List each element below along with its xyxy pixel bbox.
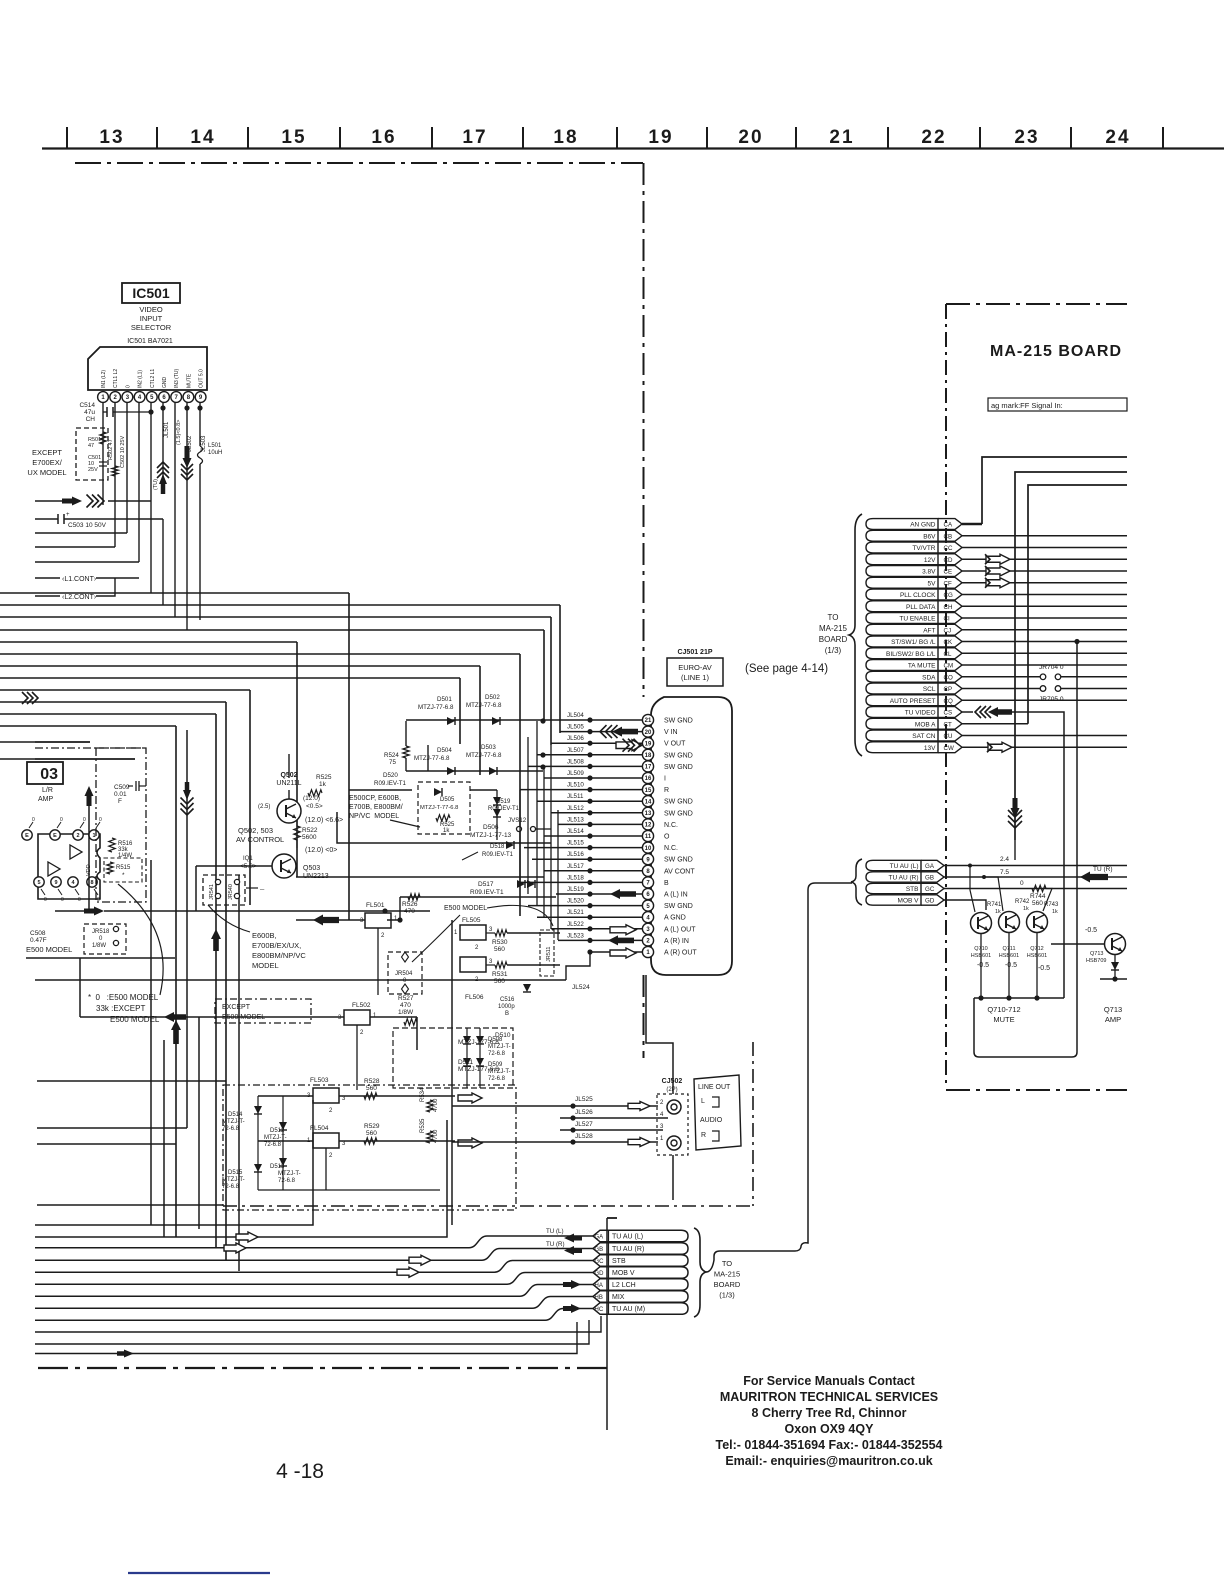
svg-text:560: 560	[366, 1130, 377, 1137]
svg-text:21: 21	[645, 718, 652, 724]
svg-text:CL: CL	[944, 651, 952, 658]
svg-text:A (L) OUT: A (L) OUT	[664, 926, 696, 933]
jumper JR504 dashed box	[388, 952, 422, 994]
connector pin CC TV/VTR	[866, 542, 938, 553]
connector pin GB TU AU (R)	[866, 872, 921, 882]
connector pin GA TU AU (L)	[593, 1230, 688, 1242]
svg-text:22: 22	[921, 127, 946, 148]
svg-text:SELECTOR: SELECTOR	[131, 323, 172, 332]
diode D519	[493, 797, 501, 805]
svg-text:A GND: A GND	[664, 915, 686, 922]
svg-text:─: ─	[259, 887, 265, 893]
resistor R744	[1032, 885, 1046, 891]
svg-text:ST/SW1/ BG /L: ST/SW1/ BG /L	[891, 639, 936, 646]
svg-text:1k: 1k	[1023, 906, 1029, 912]
arrow open 12V	[986, 554, 1010, 564]
svg-text:JR704 0: JR704 0	[1039, 664, 1064, 671]
svg-text:GB: GB	[595, 1247, 604, 1253]
svg-text:3: 3	[342, 1141, 346, 1147]
svg-text:R527: R527	[398, 995, 414, 1002]
page border dash bottom	[38, 1367, 612, 1369]
connector pin HA L2 LCH	[593, 1279, 688, 1291]
svg-text:AV CONTROL: AV CONTROL	[236, 835, 284, 844]
transistor Q711	[999, 912, 1020, 933]
wire lower-left horizontals	[37, 1080, 226, 1082]
svg-text:TU VIDEO: TU VIDEO	[905, 710, 936, 717]
svg-text:C502 10 25V: C502 10 25V	[120, 436, 126, 468]
svg-text:1: 1	[394, 916, 398, 922]
svg-text:2: 2	[329, 1153, 333, 1159]
svg-text:AUDIO: AUDIO	[700, 1117, 723, 1124]
svg-text:R524: R524	[384, 752, 399, 759]
svg-text:IN1 (L2): IN1 (L2)	[101, 370, 107, 388]
arrow open pair upper	[236, 1232, 258, 1242]
svg-text:0: 0	[125, 385, 131, 388]
svg-text:Email:- enquiries@mauritron.co: Email:- enquiries@mauritron.co.uk	[725, 1454, 932, 1468]
svg-text:E700B/EX/UX,: E700B/EX/UX,	[252, 941, 301, 950]
svg-text:3: 3	[660, 1124, 664, 1130]
svg-text:MA-215: MA-215	[819, 624, 848, 633]
svg-text:13: 13	[99, 127, 124, 148]
wire GA out	[944, 865, 1127, 867]
svg-text:D520: D520	[383, 772, 398, 779]
arrow up solid	[85, 786, 94, 806]
svg-text:V OUT: V OUT	[664, 741, 686, 748]
svg-text:D506: D506	[483, 824, 499, 831]
svg-text:L501: L501	[208, 443, 222, 449]
svg-text:SCL: SCL	[923, 686, 936, 693]
wire GC out	[944, 888, 1127, 890]
connector pin CH PLL DATA	[866, 601, 938, 612]
svg-text:GD: GD	[925, 898, 935, 905]
connector pin GC STB	[593, 1255, 688, 1267]
svg-text:Q710-712: Q710-712	[987, 1005, 1020, 1014]
svg-text:GD: GD	[595, 1271, 605, 1277]
connector pin GD MOB V	[593, 1267, 688, 1279]
wire q503 base	[196, 865, 272, 867]
svg-text:72-6.8: 72-6.8	[264, 1142, 282, 1148]
arrow chevrons on bus	[32, 692, 38, 704]
IC IC503 label	[27, 762, 63, 784]
svg-text:560: 560	[494, 978, 505, 985]
arrow up-chevron JL501	[157, 462, 169, 468]
svg-text:47u: 47u	[84, 409, 95, 416]
arrow A L OUT right	[610, 925, 636, 935]
IC503 pin stub labels	[29, 822, 33, 828]
svg-text:B6V: B6V	[923, 533, 936, 540]
svg-text:0.47F: 0.47F	[30, 937, 47, 944]
resistor R522	[294, 826, 300, 840]
jumper JR705	[1040, 686, 1046, 692]
arrow up thick	[211, 929, 221, 951]
svg-text:JL521: JL521	[567, 909, 584, 916]
svg-text:R741: R741	[987, 902, 1002, 908]
svg-text:*: *	[122, 872, 125, 879]
svg-text:MOB V: MOB V	[612, 1270, 635, 1277]
svg-text:15: 15	[281, 127, 306, 148]
svg-text:MTZJ-77-6.8: MTZJ-77-6.8	[466, 752, 502, 759]
svg-text:R09.IEV-T1: R09.IEV-T1	[482, 852, 514, 858]
jumper JR518 dashed box	[84, 924, 126, 954]
svg-text:75: 75	[389, 759, 396, 766]
svg-text:(2P): (2P)	[666, 1087, 677, 1093]
svg-text:3: 3	[489, 927, 493, 933]
svg-text:TU AU (M): TU AU (M)	[612, 1306, 645, 1313]
svg-text:-0.5: -0.5	[977, 962, 989, 969]
blue scan line	[128, 1572, 270, 1574]
svg-text:MTZJ-77-6.8: MTZJ-77-6.8	[414, 755, 450, 762]
svg-text:21: 21	[829, 127, 854, 148]
svg-text:CJ501 21P: CJ501 21P	[677, 649, 712, 656]
connector pin CK ST/SW1/ BG /L	[866, 636, 938, 647]
svg-text:OUT 5.0: OUT 5.0	[199, 369, 205, 388]
IC501 body	[88, 347, 207, 390]
wire bus A	[0, 592, 349, 594]
connector pin GB TU AU (R)	[593, 1243, 688, 1255]
page border dash right vertical	[643, 163, 645, 697]
svg-text:CD: CD	[944, 557, 953, 564]
wire mute bus	[974, 997, 1064, 999]
svg-text:JL528: JL528	[575, 1133, 593, 1140]
svg-text:JL525: JL525	[575, 1096, 593, 1103]
svg-text:R528: R528	[364, 1078, 380, 1085]
svg-text:JL515: JL515	[567, 840, 584, 847]
wire bus A vertical drops	[348, 593, 350, 920]
svg-text:INPUT: INPUT	[140, 314, 163, 323]
svg-text:2: 2	[360, 1030, 364, 1036]
IC IC501 label	[122, 283, 180, 303]
svg-text:D519: D519	[496, 799, 511, 805]
svg-text:1/8W: 1/8W	[92, 943, 106, 949]
svg-text:R535: R535	[420, 1118, 426, 1133]
svg-text:Q713: Q713	[1090, 951, 1103, 957]
svg-text:JL512: JL512	[567, 805, 584, 812]
svg-text:0: 0	[1020, 880, 1024, 887]
arrow left solid FL501	[296, 919, 365, 921]
svg-text:AMP: AMP	[1105, 1015, 1121, 1024]
wire long verticals	[150, 860, 152, 1225]
svg-text:BOARD: BOARD	[714, 1280, 741, 1289]
svg-text:-0.5: -0.5	[1038, 965, 1050, 972]
svg-text:IN2 (L1): IN2 (L1)	[138, 370, 144, 388]
resistor R526	[400, 896, 556, 898]
svg-text:IQ1: IQ1	[243, 856, 253, 862]
svg-text:MUTE: MUTE	[993, 1015, 1014, 1024]
svg-text:EURO-AV: EURO-AV	[678, 663, 712, 672]
arrow open 5V	[986, 578, 1010, 588]
svg-text:JR541: JR541	[209, 884, 215, 900]
wire bundle C lines	[35, 1236, 593, 1248]
svg-text:JL522: JL522	[567, 921, 584, 928]
wire cj502 feed	[646, 975, 673, 1094]
svg-text:(12.0): (12.0)	[303, 795, 320, 802]
arrow open 13V	[988, 742, 1012, 752]
connector pin CU SAT CN	[866, 730, 938, 741]
svg-text:AUTO PRESET: AUTO PRESET	[890, 698, 936, 705]
svg-text:GC: GC	[925, 886, 935, 893]
svg-text:17: 17	[462, 127, 487, 148]
svg-text:R09.IEV-T1: R09.IEV-T1	[488, 806, 520, 812]
svg-text:TO: TO	[828, 613, 839, 622]
IC501 pins 1-9	[98, 392, 109, 403]
svg-text:R534: R534	[420, 1087, 426, 1102]
svg-text:CTL2 L1: CTL2 L1	[150, 369, 156, 388]
svg-text:14: 14	[190, 127, 215, 148]
svg-text:E600B,: E600B,	[252, 931, 277, 940]
svg-text:47: 47	[88, 443, 94, 449]
svg-text:TU AU (R): TU AU (R)	[612, 1246, 644, 1253]
svg-text:1/8W: 1/8W	[398, 1009, 414, 1016]
svg-text:CU: CU	[944, 733, 953, 740]
svg-text:TU AU (R): TU AU (R)	[889, 875, 919, 882]
arrow open pair lower	[409, 1255, 431, 1265]
svg-text:‹L2.CONT›: ‹L2.CONT›	[62, 594, 97, 601]
svg-text:(TU): (TU)	[153, 479, 159, 490]
junction dots on pins 6 8 9	[160, 405, 165, 410]
svg-text:C509: C509	[114, 784, 130, 791]
svg-text:Tel:- 01844-351694 Fax:- 01844: Tel:- 01844-351694 Fax:- 01844-352554	[715, 1438, 942, 1452]
svg-text:L2 LCH: L2 LCH	[612, 1282, 636, 1289]
wire GB out	[944, 876, 1127, 878]
wire bus B	[0, 689, 250, 691]
svg-text:25V: 25V	[88, 467, 98, 473]
svg-text:(LINE 1): (LINE 1)	[681, 673, 709, 682]
svg-text:CH: CH	[86, 416, 96, 423]
arrow A L IN left	[610, 889, 636, 899]
svg-text:I: I	[664, 776, 666, 783]
svg-text:MIX: MIX	[612, 1294, 625, 1301]
svg-text:72-6.8: 72-6.8	[488, 1076, 506, 1082]
svg-text:CT: CT	[944, 721, 952, 728]
arrow to bus	[62, 497, 82, 506]
connector CJ501 EURO-AV label box	[667, 658, 723, 686]
dashed box diode cluster	[393, 1028, 513, 1088]
node L2.CONT	[35, 595, 60, 597]
svg-text:HA: HA	[595, 1283, 603, 1289]
svg-text:JL520: JL520	[567, 898, 584, 905]
brace C-stack	[849, 514, 862, 756]
wire fl502 out	[370, 1016, 417, 1018]
resistor R515 dashed box	[104, 858, 142, 882]
svg-text:A (R) OUT: A (R) OUT	[664, 950, 697, 957]
svg-text:JR705 0: JR705 0	[1039, 696, 1064, 703]
svg-text:FL501: FL501	[366, 902, 385, 909]
svg-text:JL505: JL505	[567, 724, 584, 731]
svg-text:D505: D505	[440, 797, 455, 803]
svg-text:E700EX/: E700EX/	[32, 458, 63, 467]
svg-text:JL506: JL506	[567, 735, 584, 742]
svg-text:LINE OUT: LINE OUT	[698, 1084, 731, 1091]
brace GA-HC	[694, 1228, 706, 1317]
svg-text:14: 14	[645, 799, 652, 805]
svg-text:STB: STB	[612, 1258, 626, 1265]
connector CJ501 body	[651, 697, 732, 975]
svg-text:E700B, E800BM/: E700B, E800BM/	[349, 804, 403, 811]
svg-text:SW GND: SW GND	[664, 718, 693, 725]
svg-text:SW GND: SW GND	[664, 764, 693, 771]
svg-text:FL506: FL506	[465, 994, 484, 1001]
wire IC501 pin drops	[102, 403, 104, 506]
dashed box audio filters	[223, 1085, 516, 1210]
arrow chevron down double	[183, 782, 191, 800]
svg-text:Q502, 503: Q502, 503	[238, 826, 273, 835]
vertical through pills	[606, 1218, 608, 1430]
svg-text:(See page 4-14): (See page 4-14)	[745, 663, 828, 675]
connector CJ501 pin 1 A (R) OUT	[590, 951, 646, 953]
svg-text:CG: CG	[944, 592, 953, 599]
wire mute emitters	[980, 934, 982, 999]
connector pin CD 12V	[866, 554, 938, 565]
label box LINE OUT AUDIO	[694, 1075, 741, 1150]
svg-text:PLL CLOCK: PLL CLOCK	[900, 592, 936, 599]
jack R	[667, 1136, 681, 1150]
svg-text:FL503: FL503	[310, 1077, 329, 1084]
svg-text:1k: 1k	[995, 909, 1001, 915]
svg-text:TU AU (L): TU AU (L)	[612, 1234, 643, 1241]
svg-text:9: 9	[54, 880, 57, 886]
svg-text:E: E	[53, 833, 57, 839]
arrow open 3.8V	[986, 566, 1010, 576]
svg-text:3: 3	[342, 1096, 346, 1102]
svg-text:10: 10	[645, 846, 652, 852]
svg-text:3: 3	[489, 959, 493, 965]
wire bus B drops	[249, 690, 251, 905]
svg-text:SW GND: SW GND	[664, 903, 693, 910]
connector pin CM TA MUTE	[866, 660, 938, 671]
svg-text:CJ: CJ	[944, 627, 952, 634]
svg-text:B: B	[664, 880, 669, 887]
svg-text:JL507: JL507	[567, 747, 584, 754]
svg-text:MTZJ-77-6.8: MTZJ-77-6.8	[418, 704, 454, 711]
svg-text:‹L1.CONT›: ‹L1.CONT›	[62, 576, 97, 583]
svg-text:11: 11	[645, 834, 652, 840]
svg-text:MOB V: MOB V	[898, 898, 920, 905]
svg-text:C508: C508	[30, 930, 46, 937]
svg-text:5V: 5V	[928, 580, 937, 587]
svg-text:JL523: JL523	[567, 932, 584, 939]
arrow open right FL503	[339, 1095, 455, 1097]
svg-text:CB: CB	[944, 533, 953, 540]
svg-text:F: F	[118, 798, 122, 805]
svg-text:4: 4	[660, 1112, 664, 1118]
svg-text:1: 1	[660, 1136, 664, 1142]
svg-text:0.01: 0.01	[114, 791, 127, 798]
svg-text:13: 13	[645, 811, 652, 817]
svg-text:560: 560	[366, 1085, 377, 1092]
svg-text:JR504: JR504	[395, 971, 413, 977]
svg-text:MTZJ-T-: MTZJ-T-	[278, 1171, 301, 1177]
svg-text:0: 0	[83, 817, 86, 823]
svg-text:MTZJ-T-: MTZJ-T-	[222, 1177, 245, 1183]
junction dot	[382, 908, 387, 913]
svg-text:JL509: JL509	[567, 770, 584, 777]
svg-text:BIL/SW2/ BG L/L: BIL/SW2/ BG L/L	[886, 651, 936, 658]
svg-text:CK: CK	[944, 639, 953, 646]
connector pin CE 3.8V	[866, 566, 938, 577]
svg-text:(1.5)<0.8>: (1.5)<0.8>	[176, 420, 182, 445]
svg-text:1: 1	[454, 930, 458, 936]
connector pin CA AN GND	[866, 519, 938, 530]
jumper box JR541 JR540	[203, 875, 245, 905]
svg-text:AN GND: AN GND	[910, 522, 936, 529]
svg-text:560: 560	[494, 946, 505, 953]
svg-text:STB: STB	[906, 886, 919, 893]
wire 533	[35, 532, 127, 534]
svg-text:CA: CA	[944, 522, 953, 529]
svg-text:HC: HC	[595, 1307, 604, 1313]
svg-text:N.C.: N.C.	[664, 845, 678, 852]
svg-text:JR511: JR511	[546, 947, 552, 963]
svg-text:TU (R): TU (R)	[1093, 866, 1113, 873]
svg-text:8: 8	[90, 880, 93, 886]
connector pin CP SCL	[866, 683, 938, 694]
resistor R530	[495, 930, 507, 936]
svg-text:C514: C514	[79, 402, 95, 409]
svg-text:D502: D502	[485, 694, 500, 701]
svg-text:IC501: IC501	[132, 285, 170, 301]
connector pin GA TU AU (L)	[866, 860, 921, 870]
wire JL504 stub	[405, 721, 407, 746]
svg-text:HB: HB	[595, 1295, 603, 1301]
IC503 pins bottom row	[34, 877, 44, 887]
nested corner traces	[982, 457, 1127, 524]
svg-text:R502 47: R502 47	[108, 439, 114, 460]
svg-text:CI: CI	[944, 616, 950, 623]
arrow V IN left	[600, 725, 607, 738]
arrow HC right	[563, 1304, 581, 1313]
svg-text:17: 17	[645, 765, 652, 771]
option box EXCEPT E500 MODEL	[215, 999, 311, 1023]
svg-text:CC: CC	[944, 545, 953, 552]
svg-text:E500 MODEL: E500 MODEL	[444, 905, 487, 912]
node L1.CONT	[35, 577, 60, 579]
arrow small solid right bottom	[117, 1350, 134, 1358]
tag mark box	[988, 398, 1127, 411]
svg-text:E500CP, E600B,: E500CP, E600B,	[349, 795, 401, 802]
svg-text:JL518: JL518	[567, 874, 584, 881]
svg-text:-0.5: -0.5	[1005, 962, 1017, 969]
svg-text:* 0 :E500 MODEL: * 0 :E500 MODEL	[88, 993, 159, 1002]
svg-text:GA: GA	[925, 863, 935, 870]
arrow down-solid JL502	[183, 446, 192, 468]
svg-text:470: 470	[400, 1002, 411, 1009]
svg-text:D515: D515	[228, 1170, 243, 1176]
svg-text:AV CONT: AV CONT	[664, 868, 695, 875]
svg-text:R09.IEV-T1: R09.IEV-T1	[470, 889, 504, 896]
svg-text:D517: D517	[478, 881, 494, 888]
svg-text:MTZJ-T-: MTZJ-T-	[488, 1069, 511, 1075]
board MA-215 dashed outline	[946, 303, 1127, 305]
svg-text:1k: 1k	[443, 828, 450, 834]
svg-text:SW GND: SW GND	[664, 857, 693, 864]
capacitor C503	[35, 518, 58, 520]
svg-text:72-6.8: 72-6.8	[222, 1184, 240, 1190]
svg-text:19: 19	[645, 741, 652, 747]
svg-text:CE: CE	[944, 569, 953, 576]
svg-text:MA-215 BOARD: MA-215 BOARD	[990, 343, 1122, 360]
svg-text:MTZJ-T-77-6.8: MTZJ-T-77-6.8	[420, 805, 458, 811]
svg-text:3: 3	[338, 1015, 342, 1021]
svg-text:O: O	[664, 834, 670, 841]
svg-text:1000p: 1000p	[498, 1004, 515, 1010]
arrow right into bus	[55, 910, 85, 912]
svg-text:SW GND: SW GND	[664, 752, 693, 759]
svg-text:4 -18: 4 -18	[276, 1460, 324, 1483]
svg-text:IN3 (TU): IN3 (TU)	[174, 369, 180, 389]
svg-text:18: 18	[553, 127, 578, 148]
svg-text:JL508: JL508	[567, 758, 584, 765]
svg-text:SW GND: SW GND	[664, 799, 693, 806]
